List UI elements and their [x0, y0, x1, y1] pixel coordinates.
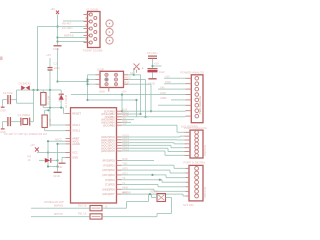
wire: [133, 70, 135, 75]
IC U1 left pin stubs: [66, 114, 71, 158]
wire: [166, 197, 172, 199]
resistor R11: [90, 214, 102, 219]
label C7: [159, 70, 165, 74]
svg-text:RESET: RESET: [72, 112, 81, 116]
junction dot: [105, 78, 107, 80]
label net: [160, 96, 167, 100]
wire: [33, 103, 35, 121]
junction dot: [47, 151, 49, 153]
svg-text:(INT1)PD3: (INT1)PD3: [102, 173, 115, 177]
svg-text:R8 4K7: R8 4K7: [62, 22, 72, 26]
svg-text:R2 1M: R2 1M: [48, 118, 52, 127]
svg-text:PORT C ANALOG: PORT C ANALOG: [184, 126, 207, 130]
label R10: [78, 203, 87, 207]
svg-text:+5V: +5V: [122, 89, 127, 93]
supply +5V symbol: [50, 7, 59, 14]
wire: [57, 48, 59, 82]
svg-text:GND: GND: [72, 156, 78, 160]
wire: [102, 207, 127, 209]
wire: [122, 110, 186, 112]
label D1: [58, 93, 62, 103]
wire: [3, 121, 8, 123]
wire: [2, 100, 4, 107]
net labels PD: [122, 158, 128, 195]
junction dot: [133, 74, 135, 76]
junction dot: [151, 65, 153, 67]
label 1K: [28, 158, 31, 162]
wire: [30, 121, 34, 123]
diode D2 pair: [21, 86, 30, 91]
label R1: [46, 95, 50, 104]
wire: [151, 194, 153, 197]
svg-text:PORT CA: PORT CA: [204, 145, 207, 156]
label D2: [19, 82, 32, 86]
svg-text:C6 22P C7 22P Q1 16MHZ R4 1: C6 22P C7 22P Q1 16MHZ R4 1M: [4, 132, 47, 136]
label D1 name: [64, 94, 68, 108]
label +5V: [122, 89, 127, 93]
connector SV3 stubs: [186, 168, 190, 196]
supply +5V symbol: [30, 143, 39, 151]
connector SV4 pads: [195, 131, 199, 158]
wire: [122, 121, 132, 123]
wire: [122, 136, 185, 155]
wire: [63, 20, 88, 22]
label C2: [54, 62, 58, 66]
label MISO: [125, 77, 131, 80]
svg-text:(TXD)PD1: (TXD)PD1: [103, 163, 116, 167]
svg-text:(INT0)PD2: (INT0)PD2: [102, 168, 115, 172]
label GND: [122, 190, 131, 194]
svg-text:R9: R9: [28, 155, 32, 159]
wire: [49, 70, 51, 90]
label M8TXD: [54, 212, 63, 216]
svg-text:ICP: ICP: [122, 123, 127, 126]
wire: [158, 88, 186, 90]
svg-text:GND: GND: [99, 90, 105, 94]
connector X1 pins: [89, 13, 97, 44]
wire: [60, 90, 62, 94]
junction dot: [56, 25, 58, 27]
svg-text:F09HP DSUB9: F09HP DSUB9: [83, 48, 103, 52]
wire: [171, 99, 186, 101]
connector SV2 stubs: [186, 78, 192, 116]
wire: [44, 110, 46, 115]
IC U1 box: [71, 108, 117, 203]
svg-text:POWER ANALOG: POWER ANALOG: [181, 70, 205, 74]
wire: [127, 201, 149, 203]
svg-text:R11 1K: R11 1K: [78, 212, 87, 216]
wire: [42, 105, 44, 108]
label VIN: [160, 85, 164, 89]
junction dot: [47, 109, 49, 111]
label SV2 below: [181, 125, 198, 129]
wire: [38, 26, 88, 28]
wire: [150, 84, 152, 111]
resistor R1: [41, 93, 46, 106]
svg-text:R10 1K: R10 1K: [78, 203, 87, 207]
svg-text:(ADC5)PC5: (ADC5)PC5: [101, 149, 115, 153]
svg-text:PWR ANALOG: PWR ANALOG: [198, 96, 202, 114]
wire: [70, 32, 88, 34]
svg-text:+5V: +5V: [30, 143, 35, 147]
label SV3 side: [204, 187, 207, 198]
wire: [128, 74, 141, 76]
svg-text:GND: GND: [0, 109, 6, 112]
svg-text:GND: GND: [148, 81, 156, 85]
label IC1 value: [44, 200, 64, 204]
connector SV4 stubs: [185, 132, 191, 155]
svg-text:+: +: [142, 67, 144, 71]
junction dot: [86, 80, 88, 82]
wire: [33, 90, 35, 103]
connector SV4 box: [190, 130, 203, 158]
svg-text:+5V: +5V: [46, 53, 51, 57]
svg-text:+5V: +5V: [50, 7, 55, 11]
wire: [58, 81, 88, 83]
wire: [48, 140, 66, 142]
svg-text:(AIN1)PD7: (AIN1)PD7: [102, 192, 115, 196]
svg-text:(AIN0)PD6: (AIN0)PD6: [102, 187, 115, 191]
capacitor C2: [48, 68, 53, 70]
svg-text:VIN: VIN: [160, 85, 164, 89]
wire: [122, 116, 186, 118]
label C6: [147, 51, 158, 55]
svg-text:X1 DSUB: X1 DSUB: [86, 8, 98, 12]
junction dot: [86, 99, 88, 101]
label M8RXD: [64, 34, 74, 38]
svg-text:Q1 16MHz: Q1 16MHz: [18, 113, 32, 117]
wire: [164, 77, 186, 79]
svg-text:100n: 100n: [54, 66, 61, 70]
svg-text:GND: GND: [53, 47, 61, 51]
junction dot: [135, 99, 137, 101]
wire: [17, 89, 62, 91]
svg-text:AGND: AGND: [72, 142, 80, 146]
svg-text:10uF: 10uF: [159, 70, 165, 74]
label SV2: [181, 70, 205, 74]
svg-text:ATMEGA8-16P: ATMEGA8-16P: [44, 200, 64, 204]
wire: [48, 152, 66, 154]
label 100n: [54, 66, 61, 70]
connector SV2 box: [191, 75, 203, 123]
label X1: [86, 8, 98, 12]
wire: [158, 104, 186, 106]
wire: [43, 107, 63, 109]
net labels PC: [122, 134, 129, 151]
label S1: [130, 71, 134, 75]
wire: [148, 194, 150, 201]
wire: [122, 113, 141, 115]
label R8: [62, 22, 72, 26]
svg-text:M8TXD: M8TXD: [54, 212, 63, 216]
junction dot: [60, 107, 62, 109]
wire: [122, 165, 186, 191]
ground GND: [53, 46, 62, 51]
IC U1 right pin stubs: [117, 111, 122, 194]
wire: [121, 95, 123, 112]
junction dot: [150, 110, 152, 112]
label ICSP: [97, 68, 104, 72]
wire: [88, 99, 137, 101]
wire: [45, 130, 66, 132]
svg-text:M8RXD: M8RXD: [64, 34, 74, 38]
connector X1 box: [88, 12, 101, 48]
wire: [152, 59, 154, 69]
wire: [45, 109, 50, 111]
junction dot: [56, 143, 58, 145]
ground GND: [148, 79, 156, 86]
junction dot: [139, 113, 141, 115]
diode D1: [59, 94, 64, 100]
wire: [42, 90, 44, 93]
svg-text:XTAL1: XTAL1: [72, 123, 80, 127]
svg-text:C9 100n: C9 100n: [62, 26, 73, 30]
wire: [164, 83, 186, 85]
svg-text:M8RXD: M8RXD: [122, 190, 131, 194]
ground GND: [0, 107, 6, 112]
label tick: [0, 57, 3, 61]
wire: [49, 90, 51, 125]
label R9: [28, 155, 32, 159]
wire: [87, 75, 89, 100]
label SV4: [184, 126, 207, 130]
wire: [102, 216, 157, 218]
svg-text:(T1)PD5: (T1)PD5: [105, 183, 115, 187]
label F09HP: [83, 48, 103, 52]
svg-text:PORT DB: PORT DB: [204, 187, 207, 198]
svg-text:GND: GND: [160, 91, 166, 95]
wire: [176, 125, 178, 132]
wire: [122, 119, 135, 121]
ground GND: [57, 163, 66, 169]
svg-text:+5V: +5V: [165, 75, 170, 79]
svg-text:AVCC: AVCC: [55, 138, 62, 142]
label M8RXD: [54, 204, 63, 208]
wire: [122, 194, 186, 196]
connector SV3 pads: [195, 167, 199, 198]
svg-text:D1 1N4148: D1 1N4148: [64, 94, 68, 108]
wire: [126, 202, 128, 209]
wire: [2, 122, 4, 129]
wire: [128, 79, 146, 81]
svg-text:XTAL2: XTAL2: [72, 129, 80, 133]
svg-text:PORT D DIGITAL: PORT D DIGITAL: [184, 160, 206, 164]
connector ICSP pins: [105, 73, 118, 86]
junction dot: [159, 179, 161, 181]
wire: [37, 152, 48, 154]
junction dot: [47, 140, 49, 142]
wire: [37, 27, 39, 91]
switch S2 box: [157, 194, 166, 202]
ground GND: [0, 129, 6, 134]
label GND: [160, 91, 166, 95]
wire: [50, 124, 66, 126]
wire: [145, 80, 147, 117]
svg-text:GND: GND: [57, 165, 63, 169]
svg-text:RESET: RESET: [150, 191, 159, 194]
junction dot: [151, 174, 153, 176]
svg-text:GND: GND: [53, 174, 61, 178]
label GND: [99, 90, 105, 94]
wire: [47, 141, 49, 166]
wire: [136, 100, 138, 117]
svg-text:1K: 1K: [28, 158, 31, 162]
connector SV3 box: [189, 165, 203, 201]
capacitor C4: [8, 117, 10, 126]
svg-text:C6 100n: C6 100n: [147, 51, 158, 55]
svg-text:GND: GND: [165, 80, 171, 84]
jumper SV1 pads: [106, 20, 113, 44]
connector ICSP box: [100, 71, 124, 87]
wire: [60, 100, 62, 108]
svg-text:ICSP: ICSP: [97, 68, 104, 72]
crystal Q1: [21, 118, 30, 126]
label R2: [48, 118, 52, 127]
wire: [62, 158, 66, 163]
wire: [49, 58, 51, 67]
connector ICSP stubs: [96, 75, 129, 92]
label SV2 side: [198, 96, 202, 114]
label IC1 name: [105, 206, 108, 209]
label +5V: [154, 62, 159, 66]
wire: [58, 143, 66, 145]
label R11: [78, 212, 87, 216]
wire: [48, 166, 58, 168]
wire: [157, 213, 172, 215]
svg-text:1N4148: 1N4148: [58, 93, 62, 103]
wire: [3, 99, 8, 101]
net labels PB: [122, 109, 129, 126]
svg-text:M8RXD: M8RXD: [54, 204, 63, 208]
resistor R10: [90, 206, 102, 211]
junction dot: [49, 107, 51, 109]
label SV3 below: [183, 203, 194, 207]
svg-text:(T0)PD4: (T0)PD4: [105, 178, 115, 182]
wire: [17, 102, 34, 104]
wire: [31, 207, 90, 209]
wire: [71, 94, 186, 96]
svg-text:+5V: +5V: [154, 62, 159, 66]
IC U1 right pin names: [101, 109, 115, 196]
junction dot: [32, 89, 34, 91]
label SV4 side: [204, 145, 207, 156]
svg-text:C3 100n: C3 100n: [3, 91, 14, 95]
label +5V: [165, 75, 170, 79]
wire: [122, 160, 155, 162]
IC U1 left pin names: [72, 112, 81, 160]
wire: [57, 144, 59, 172]
wire: [152, 72, 154, 78]
svg-text:AREF: AREF: [160, 96, 167, 100]
wire: [64, 108, 66, 114]
svg-text:SV3 DIG: SV3 DIG: [183, 203, 194, 207]
switch S1: [134, 64, 140, 73]
junction dot: [144, 116, 146, 118]
wire: [58, 37, 88, 39]
wire: [152, 197, 158, 199]
capacitor C3: [8, 95, 10, 104]
connector X1 pin stubs: [84, 15, 90, 43]
note text row: [4, 132, 47, 136]
ground GND: [53, 172, 61, 178]
wire: [88, 75, 96, 84]
svg-text:C2: C2: [54, 62, 58, 66]
label C3: [3, 91, 14, 95]
wire: [51, 159, 57, 161]
junction dot: [149, 193, 151, 195]
wire: [31, 216, 90, 218]
junction dot: [49, 89, 51, 91]
junction dot: [56, 80, 58, 82]
junction dot: [56, 36, 58, 38]
wire: [39, 159, 45, 161]
wire: [16, 90, 18, 103]
wire: [177, 131, 185, 133]
label S2: [150, 191, 159, 194]
wire: [140, 75, 142, 114]
connector SV2 pads: [195, 77, 199, 118]
wire: [58, 41, 88, 43]
LED D3: [45, 158, 51, 163]
wire: [11, 99, 17, 101]
label C9: [62, 26, 73, 30]
wire: [171, 198, 173, 214]
junction dot: [56, 40, 58, 42]
label +5V: [46, 53, 51, 57]
svg-text:VCC: VCC: [72, 151, 78, 155]
wire: [128, 83, 151, 85]
label GND: [165, 80, 171, 84]
junction dot: [36, 89, 38, 91]
junction dot: [86, 78, 88, 85]
wire: [44, 128, 46, 131]
svg-text:(RXD)PD0: (RXD)PD0: [102, 159, 115, 163]
svg-text:D2 BAT41: D2 BAT41: [19, 82, 32, 86]
label Q1: [18, 113, 32, 117]
label RST: [125, 82, 130, 85]
label SV3: [184, 160, 206, 164]
resistor R2: [42, 115, 47, 128]
wire: [122, 124, 178, 126]
junction dot: [121, 93, 123, 112]
wire: [153, 65, 162, 67]
wire: [156, 214, 158, 217]
wire: [11, 121, 20, 123]
capacitor C6: [148, 56, 157, 58]
capacitor C7 polarized: [142, 67, 158, 73]
junction dot: [56, 159, 58, 161]
svg-text:(SCK)PB5: (SCK)PB5: [103, 123, 116, 127]
label AVCC: [55, 138, 62, 142]
junction dot: [47, 165, 59, 167]
wire: [57, 14, 59, 45]
